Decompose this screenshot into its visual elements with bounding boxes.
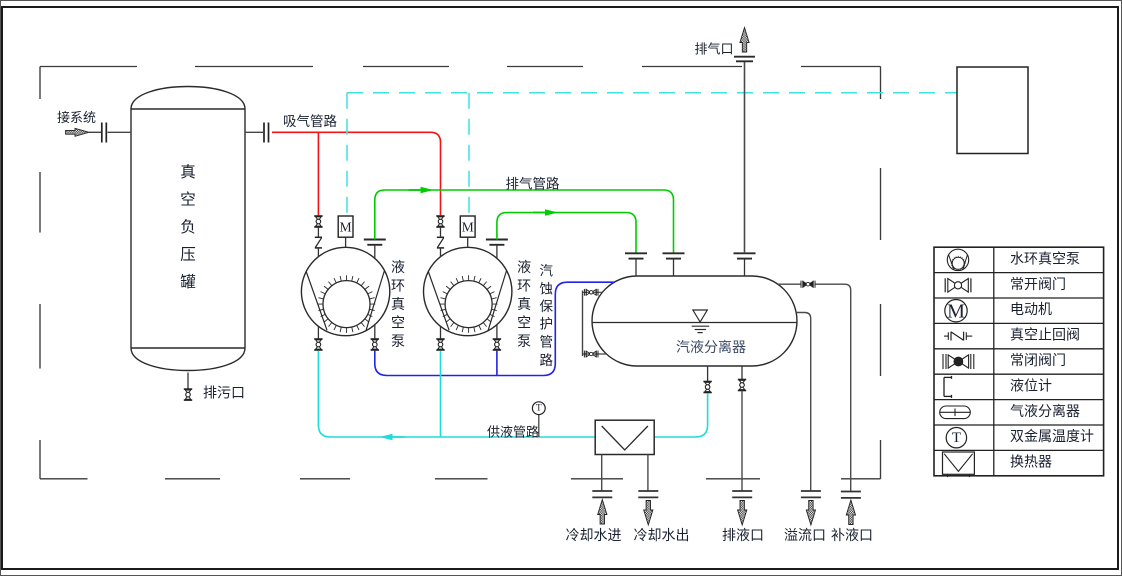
motor M2 电动机	[460, 216, 475, 237]
svg-text:水环真空泵: 水环真空泵	[1010, 251, 1080, 267]
valve V1b pump P1 supply inlet	[314, 339, 322, 350]
wire cyan supply left section	[318, 351, 595, 437]
tank drain stub	[187, 373, 189, 389]
svg-text:液: 液	[517, 260, 531, 276]
arrow 补液口	[846, 500, 855, 525]
thermometer TI 双金属温度计	[538, 415, 540, 437]
svg-text:真空止回阀: 真空止回阀	[1010, 328, 1080, 344]
legend symbol 电动机	[945, 300, 967, 322]
flange pump P2 discharge	[486, 240, 508, 245]
svg-text:换热器: 换热器	[1010, 454, 1052, 471]
svg-text:排污口: 排污口	[203, 386, 245, 402]
pump P1 impeller ring	[323, 281, 370, 328]
valve V10 drain 排液口	[738, 380, 746, 391]
valve V7 drain 排污口	[184, 389, 192, 400]
wire red suction branch to pump P1	[317, 132, 319, 215]
svg-text:真: 真	[391, 297, 405, 313]
node inlet pipe 接系统	[89, 131, 101, 133]
wire cyan dashed drop to motor M1	[346, 93, 348, 216]
separator top nozzle 2	[673, 259, 675, 277]
svg-text:空: 空	[180, 191, 196, 209]
svg-text:M: M	[947, 301, 965, 323]
heat exchanger HX 换热器	[595, 420, 654, 454]
flange at port 排液口	[732, 491, 752, 497]
wire makeup line 补液口	[778, 284, 851, 491]
svg-text:真: 真	[180, 163, 196, 181]
valve V1c pump P1 cavitation port	[371, 339, 379, 350]
svg-text:双金属温度计: 双金属温度计	[1010, 429, 1094, 445]
svg-text:T: T	[952, 430, 961, 446]
tank T1 top head	[131, 87, 245, 110]
wire stub check valve to casing	[317, 248, 319, 257]
flange F1 at tank inlet	[101, 123, 103, 143]
flow arrow on green line 1	[409, 187, 434, 193]
svg-text:液位计: 液位计	[1010, 378, 1052, 394]
legend table frame	[934, 247, 1104, 476]
separator bottom nozzle to supply	[707, 366, 709, 381]
cooling water outlet pipe	[647, 455, 649, 492]
level symbol ticks	[692, 325, 710, 327]
heat exchanger chevron	[602, 426, 648, 450]
flange at port 冷却水进	[592, 491, 612, 497]
wire cyan dashed drop to motor M2	[468, 93, 470, 216]
svg-text:压: 压	[180, 247, 196, 264]
arrow 排液口	[738, 501, 747, 526]
arrow 冷却水进	[598, 500, 607, 525]
legend symbol 常开阀门	[945, 278, 971, 292]
valve V1a pump P1 inlet	[314, 216, 322, 227]
svg-text:汽液分离器: 汽液分离器	[676, 339, 746, 356]
control box	[957, 67, 1028, 154]
wire stub valve to check valve	[440, 228, 442, 237]
wire cyan supply 供液管路 right section	[654, 393, 707, 437]
svg-text:泵: 泵	[391, 335, 405, 350]
flange F2 at tank outlet	[263, 123, 265, 143]
wire blue cavitation 汽蚀保护管路 main	[375, 282, 615, 375]
wire green exhaust from pump P1	[375, 190, 674, 253]
svg-text:路: 路	[539, 353, 553, 368]
svg-text:电动机: 电动机	[1010, 302, 1052, 318]
check valve CK2 真空止回阀	[437, 237, 444, 248]
svg-text:环: 环	[391, 280, 405, 295]
legend symbol 真空止回阀	[944, 332, 972, 341]
motor M1 stem	[345, 237, 347, 247]
valve V8 常闭阀门 makeup	[801, 281, 815, 288]
pump P1 port chords	[306, 271, 384, 330]
svg-text:冷却水出: 冷却水出	[634, 528, 690, 544]
check valve CK1 真空止回阀	[315, 237, 322, 248]
valve V2b pump P2 supply inlet	[436, 339, 444, 350]
separator liquid level line	[592, 322, 796, 324]
wire cyan dashed control horizontal	[347, 92, 957, 94]
legend symbol 液位计	[944, 376, 952, 398]
valve V9 supply from separator	[703, 382, 711, 393]
flow arrow on green line 2	[533, 209, 558, 215]
arrow 溢流口	[806, 501, 815, 526]
svg-text:蚀: 蚀	[539, 282, 553, 297]
svg-text:排液口: 排液口	[722, 528, 764, 544]
svg-text:T: T	[536, 403, 542, 413]
enclosure dashed boundary left edge	[39, 67, 41, 100]
flange at port 补液口	[841, 492, 861, 498]
svg-text:环: 环	[517, 280, 531, 295]
svg-text:M: M	[462, 220, 474, 235]
motor M2 stem	[467, 237, 469, 247]
valve V2c pump P2 cavitation port	[493, 339, 501, 350]
flow arrow on supply line	[380, 434, 405, 440]
svg-text:空: 空	[391, 316, 405, 332]
svg-text:管: 管	[539, 335, 553, 350]
svg-text:冷却水进: 冷却水进	[566, 528, 622, 544]
svg-text:常闭阀门: 常闭阀门	[1010, 353, 1066, 369]
separator bottom nozzle to drain	[741, 366, 743, 379]
legend symbol 双金属温度计	[946, 428, 966, 448]
motor M1 电动机	[338, 216, 353, 237]
svg-text:罐: 罐	[180, 273, 196, 291]
wire stub valve to check valve	[317, 228, 319, 237]
svg-text:M: M	[340, 220, 352, 235]
tank T1 bottom head	[131, 348, 245, 371]
svg-text:真: 真	[517, 297, 531, 313]
svg-text:接系统: 接系统	[57, 110, 96, 125]
legend symbol 常闭阀门	[943, 354, 974, 369]
svg-text:溢流口: 溢流口	[784, 528, 826, 544]
svg-text:气液分离器: 气液分离器	[1010, 403, 1080, 420]
level symbol triangle	[693, 310, 707, 322]
legend symbol 气液分离器	[940, 406, 971, 419]
svg-text:排气口: 排气口	[694, 41, 733, 56]
wire stub check valve to casing	[440, 248, 442, 257]
pump P2 bottom stubs	[440, 326, 442, 338]
flange at port 溢流口	[801, 491, 821, 497]
legend symbol 换热器	[943, 452, 975, 474]
wire red suction main 吸气管路	[272, 132, 441, 215]
valve level gauge bottom	[584, 351, 598, 358]
pump P1 bottom stubs	[317, 326, 319, 338]
node tank outlet pipe	[245, 131, 263, 133]
arrow 接系统 inflow	[66, 128, 89, 136]
separator S1 汽液分离器 shell	[592, 276, 797, 366]
enclosure dashed boundary top edge	[40, 66, 137, 68]
svg-text:排气管路: 排气管路	[506, 176, 560, 191]
arrow 冷却水出	[644, 501, 653, 526]
svg-text:液: 液	[391, 260, 405, 276]
wire green exhaust from pump P2	[497, 213, 636, 254]
separator top nozzle 3	[744, 259, 746, 277]
svg-text:空: 空	[517, 316, 531, 332]
svg-text:常开阀门: 常开阀门	[1010, 277, 1066, 293]
svg-text:保: 保	[539, 299, 553, 314]
arrow 排气口 outflow	[740, 28, 749, 53]
level gauge LG 液位计	[582, 291, 584, 357]
wire drain pipe 排液口	[741, 391, 743, 491]
pump P2 液环真空泵 casing	[424, 247, 512, 335]
pump P1 液环真空泵 casing	[301, 247, 389, 335]
cooling water inlet pipe	[601, 455, 603, 492]
enclosure dashed boundary bottom edge	[40, 478, 88, 480]
pump P2 port chords	[428, 271, 506, 330]
separator top nozzle 1	[635, 259, 637, 277]
wire cyan branch to pump P2	[440, 351, 442, 437]
svg-text:供液管路: 供液管路	[487, 424, 539, 439]
legend symbol 水环真空泵	[947, 249, 968, 270]
svg-text:护: 护	[539, 317, 553, 332]
wire overflow line 溢流口	[796, 313, 810, 492]
tank T1 真空负压罐 body	[131, 109, 245, 348]
wire blue branch from pump P2	[496, 351, 498, 376]
svg-text:补液口: 补液口	[831, 528, 873, 544]
valve V2a pump P2 inlet	[436, 216, 444, 227]
svg-text:吸气管路: 吸气管路	[283, 114, 337, 129]
pump P2 impeller ring	[445, 281, 492, 328]
flange at port 冷却水出	[638, 491, 658, 497]
flange pump P1 discharge	[364, 240, 386, 245]
flange at 排气口	[734, 56, 755, 58]
wire exhaust riser to 排气口	[744, 62, 746, 254]
valve level gauge top	[584, 289, 598, 296]
svg-text:汽: 汽	[539, 264, 553, 279]
enclosure dashed boundary right edge	[880, 67, 882, 100]
svg-text:负: 负	[180, 218, 196, 236]
svg-text:泵: 泵	[517, 335, 531, 350]
